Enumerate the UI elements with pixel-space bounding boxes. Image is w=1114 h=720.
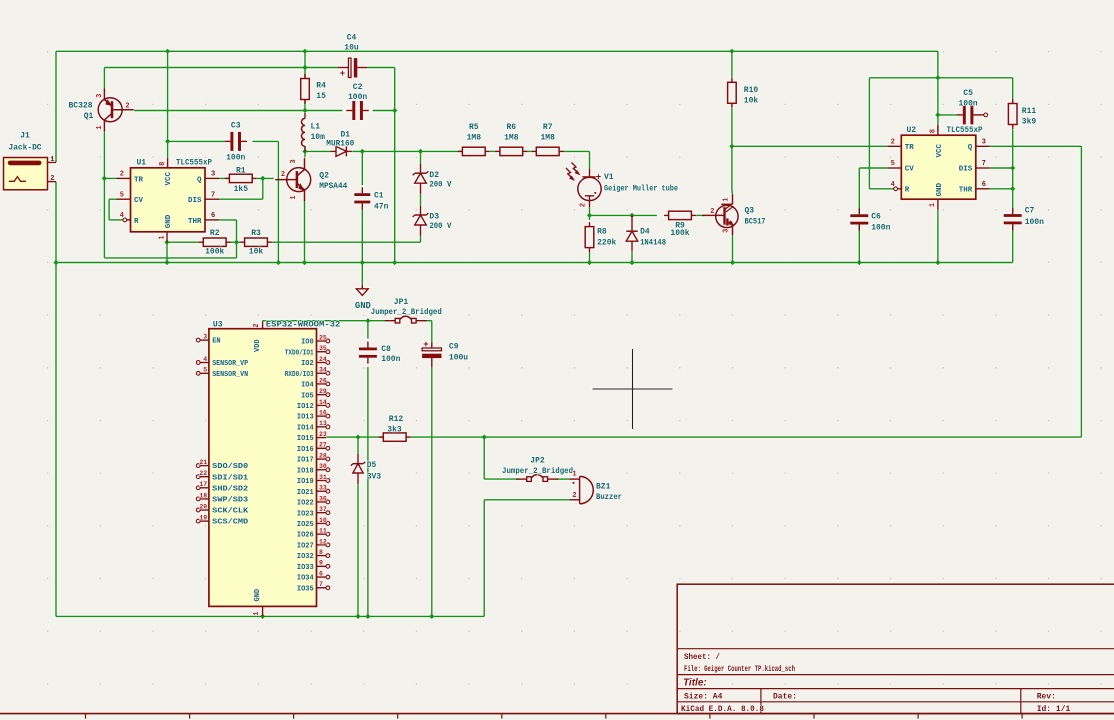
svg-text:IO16: IO16: [297, 446, 314, 454]
svg-text:30: 30: [319, 463, 327, 470]
svg-text:Jumper_2_Bridged: Jumper_2_Bridged: [371, 308, 442, 317]
svg-text:SDI/SD1: SDI/SD1: [212, 474, 248, 482]
svg-text:23: 23: [319, 431, 327, 438]
svg-text:EN: EN: [212, 338, 220, 346]
svg-text:1N4148: 1N4148: [640, 239, 666, 248]
svg-text:47n: 47n: [374, 202, 389, 211]
svg-text:+: +: [423, 340, 428, 350]
svg-text:VCC: VCC: [165, 171, 173, 185]
svg-text:BC517: BC517: [745, 218, 766, 227]
svg-text:6: 6: [319, 570, 323, 577]
svg-text:U1: U1: [137, 159, 147, 168]
svg-text:J1: J1: [20, 131, 30, 140]
svg-text:TR: TR: [905, 144, 915, 152]
svg-text:3: 3: [723, 229, 731, 233]
svg-text:R2: R2: [210, 229, 220, 238]
svg-text:Q1: Q1: [84, 112, 94, 121]
svg-text:1: 1: [159, 235, 167, 239]
svg-text:TLC555xP: TLC555xP: [176, 159, 212, 168]
svg-text:R3: R3: [251, 229, 261, 238]
svg-text:IO35: IO35: [297, 585, 314, 593]
svg-text:31: 31: [319, 474, 327, 481]
svg-text:C3: C3: [231, 122, 241, 131]
svg-text:1: 1: [96, 125, 104, 129]
svg-text:R: R: [905, 186, 910, 194]
svg-text:6: 6: [211, 212, 215, 220]
svg-text:3k9: 3k9: [1022, 118, 1037, 127]
svg-text:35: 35: [319, 345, 327, 352]
svg-text:R10: R10: [744, 86, 759, 95]
svg-text:KiCad E.D.A. 8.0.8: KiCad E.D.A. 8.0.8: [681, 705, 764, 714]
svg-text:R6: R6: [506, 123, 516, 132]
svg-text:Geiger Muller tube: Geiger Muller tube: [604, 185, 678, 194]
svg-text:34: 34: [319, 367, 327, 374]
svg-text:29: 29: [319, 388, 327, 395]
svg-text:IO2: IO2: [301, 360, 314, 368]
svg-text:3: 3: [290, 159, 298, 163]
svg-text:3: 3: [203, 334, 207, 341]
svg-text:D3: D3: [429, 213, 439, 222]
svg-text:IO14: IO14: [297, 424, 314, 432]
svg-text:21: 21: [199, 459, 207, 466]
svg-text:2: 2: [253, 323, 261, 327]
svg-text:C4: C4: [347, 34, 357, 43]
svg-text:24: 24: [319, 356, 327, 363]
svg-text:BZ1: BZ1: [596, 483, 611, 492]
svg-text:20: 20: [199, 503, 207, 510]
svg-text:C9: C9: [449, 343, 459, 352]
svg-text:VCC: VCC: [936, 143, 944, 157]
svg-text:BC328: BC328: [69, 101, 93, 110]
svg-text:C1: C1: [374, 191, 384, 200]
svg-text:100n: 100n: [871, 224, 890, 233]
svg-text:IO21: IO21: [297, 489, 314, 497]
svg-text:2: 2: [281, 171, 285, 179]
svg-text:TXD0/IO1: TXD0/IO1: [285, 349, 314, 357]
svg-text:14: 14: [319, 399, 327, 406]
svg-text:8: 8: [930, 129, 938, 133]
svg-text:1: 1: [929, 203, 937, 207]
svg-text:26: 26: [319, 377, 327, 384]
svg-text:220k: 220k: [597, 239, 616, 248]
svg-text:DIS: DIS: [959, 166, 973, 174]
svg-text:100k: 100k: [670, 229, 689, 238]
svg-text:5: 5: [203, 367, 207, 374]
svg-text:IO27: IO27: [297, 542, 314, 550]
svg-text:IO0: IO0: [301, 339, 314, 347]
svg-text:16: 16: [319, 410, 327, 417]
svg-text:13: 13: [319, 420, 327, 427]
svg-text:File: Geiger Counter TP.kicad_: File: Geiger Counter TP.kicad_sch: [684, 665, 795, 674]
svg-text:IO13: IO13: [297, 414, 314, 422]
svg-text:2: 2: [891, 139, 895, 147]
svg-text:100u: 100u: [449, 354, 468, 363]
svg-text:TR: TR: [134, 176, 144, 184]
svg-text:10u: 10u: [344, 44, 359, 53]
svg-text:C8: C8: [381, 345, 391, 354]
svg-text:D2: D2: [429, 171, 439, 180]
svg-text:Buzzer: Buzzer: [596, 493, 622, 502]
svg-text:+: +: [596, 173, 601, 183]
svg-text:2: 2: [572, 492, 576, 500]
svg-text:IO5: IO5: [301, 392, 314, 400]
svg-text:17: 17: [199, 481, 207, 488]
svg-text:GND: GND: [936, 182, 944, 196]
svg-text:200 V: 200 V: [429, 181, 451, 190]
svg-text:8: 8: [319, 549, 323, 556]
svg-text:IO25: IO25: [297, 521, 314, 529]
svg-text:SCK/CLK: SCK/CLK: [212, 508, 249, 516]
svg-text:10m: 10m: [311, 133, 326, 142]
svg-text:IO33: IO33: [297, 564, 314, 572]
svg-text:3: 3: [982, 139, 986, 147]
svg-text:1M8: 1M8: [540, 134, 555, 143]
svg-text:18: 18: [199, 492, 207, 499]
svg-text:D5: D5: [367, 461, 377, 470]
svg-text:Id: 1/1: Id: 1/1: [1037, 705, 1071, 714]
svg-text:25: 25: [319, 334, 327, 341]
svg-text:C5: C5: [963, 89, 973, 98]
svg-text:GND: GND: [165, 214, 173, 228]
svg-text:5: 5: [891, 160, 895, 168]
svg-text:10k: 10k: [249, 248, 264, 257]
svg-text:Q: Q: [197, 176, 202, 184]
svg-text:100n: 100n: [958, 100, 977, 109]
svg-text:IO4: IO4: [301, 382, 314, 390]
svg-text:10: 10: [319, 517, 327, 524]
svg-text:1M8: 1M8: [504, 134, 519, 143]
svg-text:VDD: VDD: [254, 339, 262, 352]
svg-text:R: R: [134, 218, 139, 226]
svg-text:10k: 10k: [744, 97, 759, 106]
svg-text:SWP/SD3: SWP/SD3: [212, 497, 248, 505]
svg-text:R4: R4: [316, 81, 326, 90]
svg-text:36: 36: [319, 495, 327, 502]
svg-text:33: 33: [319, 485, 327, 492]
svg-text:3V3: 3V3: [367, 473, 382, 482]
svg-text:SDO/SD0: SDO/SD0: [212, 463, 248, 471]
svg-text:1k5: 1k5: [234, 185, 249, 194]
svg-text:11: 11: [319, 528, 327, 535]
svg-text:C6: C6: [871, 213, 881, 222]
svg-text:D1: D1: [341, 130, 351, 139]
svg-text:SENSOR_VN: SENSOR_VN: [212, 371, 248, 379]
svg-text:JP2: JP2: [530, 457, 545, 466]
svg-text:4: 4: [120, 212, 124, 220]
svg-text:1: 1: [50, 156, 54, 164]
svg-text:2: 2: [50, 175, 54, 183]
svg-text:+: +: [340, 69, 345, 79]
svg-text:Date:: Date:: [773, 692, 797, 701]
svg-text:IO22: IO22: [297, 500, 314, 508]
svg-text:GND: GND: [254, 589, 262, 602]
svg-text:100k: 100k: [205, 248, 224, 257]
svg-text:C7: C7: [1025, 207, 1035, 216]
svg-text:GND: GND: [355, 300, 371, 311]
svg-text:IO15: IO15: [297, 435, 314, 443]
svg-text:Rev:: Rev:: [1037, 692, 1056, 701]
svg-text:7: 7: [211, 191, 215, 199]
svg-text:R1: R1: [236, 166, 246, 175]
svg-text:L1: L1: [311, 122, 321, 131]
svg-text:RXD0/IO3: RXD0/IO3: [285, 371, 314, 379]
svg-text:MPSA44: MPSA44: [319, 182, 347, 191]
svg-text:IO26: IO26: [297, 532, 314, 540]
svg-text:1: 1: [253, 611, 261, 615]
svg-text:Sheet: /: Sheet: /: [684, 653, 720, 662]
svg-text:7: 7: [982, 160, 986, 168]
svg-text:2: 2: [580, 203, 588, 207]
svg-text:THR: THR: [959, 186, 973, 194]
svg-text:Title:: Title:: [683, 677, 707, 688]
svg-text:1: 1: [290, 195, 298, 199]
svg-text:SCS/CMD: SCS/CMD: [212, 519, 248, 527]
svg-text:3: 3: [96, 94, 104, 98]
svg-text:R11: R11: [1022, 107, 1037, 116]
svg-text:2: 2: [125, 103, 129, 111]
svg-text:28: 28: [319, 452, 327, 459]
svg-text:CV: CV: [134, 197, 144, 205]
svg-text:15: 15: [316, 92, 326, 101]
svg-text:1: 1: [723, 197, 731, 201]
svg-text:5: 5: [120, 191, 124, 199]
svg-text:100n: 100n: [381, 355, 400, 364]
svg-text:1M8: 1M8: [467, 134, 482, 143]
svg-text:IO19: IO19: [297, 478, 314, 486]
svg-text:100n: 100n: [1025, 218, 1044, 227]
svg-text:IO12: IO12: [297, 403, 314, 411]
svg-text:4: 4: [203, 356, 207, 363]
svg-text:100n: 100n: [226, 154, 245, 163]
svg-text:C2: C2: [353, 83, 363, 92]
svg-text:12: 12: [319, 538, 327, 545]
svg-text:Q: Q: [968, 144, 973, 152]
svg-text:100n: 100n: [348, 93, 367, 102]
svg-text:SENSOR_VP: SENSOR_VP: [212, 360, 248, 368]
svg-text:200 V: 200 V: [429, 222, 451, 231]
svg-text:6: 6: [982, 181, 986, 189]
svg-text:R5: R5: [469, 123, 479, 132]
svg-text:U3: U3: [213, 321, 223, 330]
svg-text:Q3: Q3: [745, 206, 755, 215]
svg-text:Jumper_2_Bridged: Jumper_2_Bridged: [502, 467, 573, 476]
svg-text:SHD/SD2: SHD/SD2: [212, 485, 248, 493]
svg-text:IO17: IO17: [297, 457, 314, 465]
svg-text:3: 3: [211, 171, 215, 179]
svg-text:MUR160: MUR160: [326, 140, 354, 149]
svg-text:TLC555xP: TLC555xP: [947, 126, 983, 135]
svg-text:CV: CV: [905, 166, 915, 174]
svg-text:IO18: IO18: [297, 467, 314, 475]
svg-text:7: 7: [319, 581, 323, 588]
svg-text:IO32: IO32: [297, 553, 314, 561]
svg-text:ESP32-WROOM-32: ESP32-WROOM-32: [266, 321, 341, 330]
svg-text:8: 8: [159, 162, 167, 166]
svg-text:Size: A4: Size: A4: [684, 692, 723, 701]
svg-text:9: 9: [319, 560, 323, 567]
svg-text:4: 4: [891, 181, 895, 189]
svg-text:THR: THR: [188, 218, 202, 226]
svg-text:37: 37: [319, 506, 327, 513]
svg-text:27: 27: [319, 442, 327, 449]
svg-text:Q2: Q2: [319, 171, 329, 180]
svg-text:JP1: JP1: [394, 298, 409, 307]
svg-text:22: 22: [199, 470, 207, 477]
svg-text:U2: U2: [907, 126, 917, 135]
svg-text:R7: R7: [543, 123, 553, 132]
svg-text:Jack-DC: Jack-DC: [9, 144, 42, 153]
svg-text:IO23: IO23: [297, 510, 314, 518]
svg-text:3k3: 3k3: [387, 426, 402, 435]
svg-text:2: 2: [120, 171, 124, 179]
svg-text:19: 19: [199, 515, 207, 522]
svg-text:D4: D4: [640, 228, 650, 237]
svg-text:IO34: IO34: [297, 575, 314, 583]
svg-text:1: 1: [572, 470, 576, 478]
svg-text:R8: R8: [597, 228, 607, 237]
svg-text:2: 2: [710, 208, 714, 216]
svg-text:R12: R12: [389, 415, 404, 424]
svg-text:DIS: DIS: [188, 197, 202, 205]
svg-text:V1: V1: [604, 173, 614, 182]
